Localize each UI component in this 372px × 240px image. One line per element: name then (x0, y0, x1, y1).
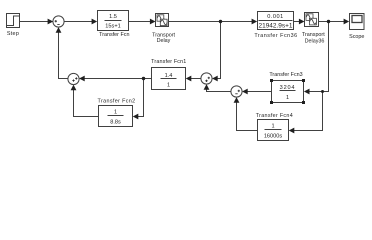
arrowheads (48, 19, 350, 134)
wire junction D drop to Transfer Fcn2 (137, 79, 144, 117)
svg-text:Transfer Fcn3: Transfer Fcn3 (269, 72, 302, 78)
svg-text:Transfer Fcn1: Transfer Fcn1 (151, 59, 186, 65)
svg-text:1: 1 (271, 124, 274, 130)
svg-text:Step: Step (7, 31, 19, 37)
wire Transfer Fcn to Transport Delay (129, 21, 153, 23)
svg-text:8.8s: 8.8s (110, 119, 121, 125)
Transfer Fcn block (98, 11, 130, 39)
wire Transfer Fcn2 to Sum2 bottom (74, 88, 99, 117)
svg-text:16000s: 16000s (264, 134, 283, 140)
svg-text:3204: 3204 (280, 85, 296, 91)
svg-text:Transport: Transport (302, 32, 325, 38)
svg-text:Transfer Fcn2: Transfer Fcn2 (98, 98, 136, 104)
Step block (7, 14, 20, 38)
arrow into Sum4 right (242, 89, 248, 95)
arrow into Sum1 bottom (56, 27, 62, 33)
wire Transfer Fcn4 to Sum4 bottom (237, 101, 258, 131)
Transfer Fcn4 block (256, 113, 293, 141)
Transfer Fcn3 block (selected) (269, 72, 305, 104)
wire Step to Sum1 (20, 21, 51, 23)
svg-text:Delay: Delay (157, 38, 171, 44)
Transfer Fcn1 block (151, 59, 186, 90)
svg-text:1.5: 1.5 (109, 14, 117, 20)
wire junction B drop to Transfer Fcn3 (308, 22, 329, 92)
Transport Delay36 block (302, 13, 325, 45)
arrow into Sum2 bottom (71, 85, 77, 91)
junction dot A (219, 20, 222, 23)
arrow into Transfer Fcn3 (304, 89, 310, 95)
Scope block (349, 14, 364, 40)
Transfer Fcn36 block (254, 12, 297, 40)
svg-text:Transfer Fcn4: Transfer Fcn4 (256, 113, 293, 119)
Transport Delay block (152, 14, 175, 45)
wire Sum3 to Transfer Fcn1 (189, 78, 201, 80)
svg-text:Scope: Scope (349, 34, 364, 40)
svg-text:Delay36: Delay36 (305, 39, 325, 45)
junction dot D (142, 77, 145, 80)
wire Transport Delay36 to Scope (319, 21, 346, 23)
junction dot B (327, 20, 330, 23)
arrow into Sum2 right (79, 76, 85, 82)
arrow into Sum3 right (212, 76, 218, 82)
arrow into Transfer Fcn1 (186, 76, 192, 82)
wire junction A drop to Sum3 (215, 22, 221, 79)
Transfer Fcn2 block (98, 98, 136, 126)
wire Sum4 to Sum3 bottom (207, 87, 232, 92)
svg-text:1: 1 (114, 110, 117, 116)
svg-text:Transfer Fcn36: Transfer Fcn36 (254, 33, 297, 39)
arrow into Transfer Fcn (92, 19, 98, 25)
wire Sum1 to Transfer Fcn (64, 21, 94, 23)
svg-text:1: 1 (167, 83, 170, 89)
arrow into Transport Delay36 (299, 19, 305, 25)
svg-text:1.4: 1.4 (165, 73, 173, 79)
arrow into Sum3 bottom (204, 84, 210, 90)
svg-text:21942.9s+1: 21942.9s+1 (259, 24, 294, 30)
wire Transfer Fcn3 to Sum4 (246, 91, 272, 93)
arrow into Transfer Fcn36 (252, 19, 258, 25)
wire junction C drop to Transfer Fcn4 (293, 92, 323, 131)
arrow into Transfer Fcn2 (133, 114, 139, 120)
arrow into Transfer Fcn4 (289, 128, 295, 134)
svg-text:1: 1 (286, 95, 289, 101)
arrow into Sum4 bottom (234, 97, 240, 103)
arrow into Transport Delay (150, 19, 156, 25)
Sum2 (68, 73, 79, 84)
Sum1 (53, 16, 64, 27)
svg-text:Transfer Fcn: Transfer Fcn (99, 32, 129, 38)
wire Transfer Fcn1 to Sum2 (82, 78, 152, 80)
wire Sum2 to Sum1 bottom (59, 30, 69, 79)
svg-text:0.001: 0.001 (267, 14, 284, 20)
arrow into Scope (344, 19, 350, 25)
Sum4 (231, 86, 242, 97)
wire Transfer Fcn36 to Transport Delay36 (294, 21, 301, 23)
junction dot C (321, 90, 324, 93)
svg-text:15s+1: 15s+1 (105, 23, 120, 29)
wire Transport Delay to Transfer Fcn36 (169, 21, 254, 23)
Sum3 (201, 73, 212, 84)
arrow into Sum1 (48, 19, 54, 25)
